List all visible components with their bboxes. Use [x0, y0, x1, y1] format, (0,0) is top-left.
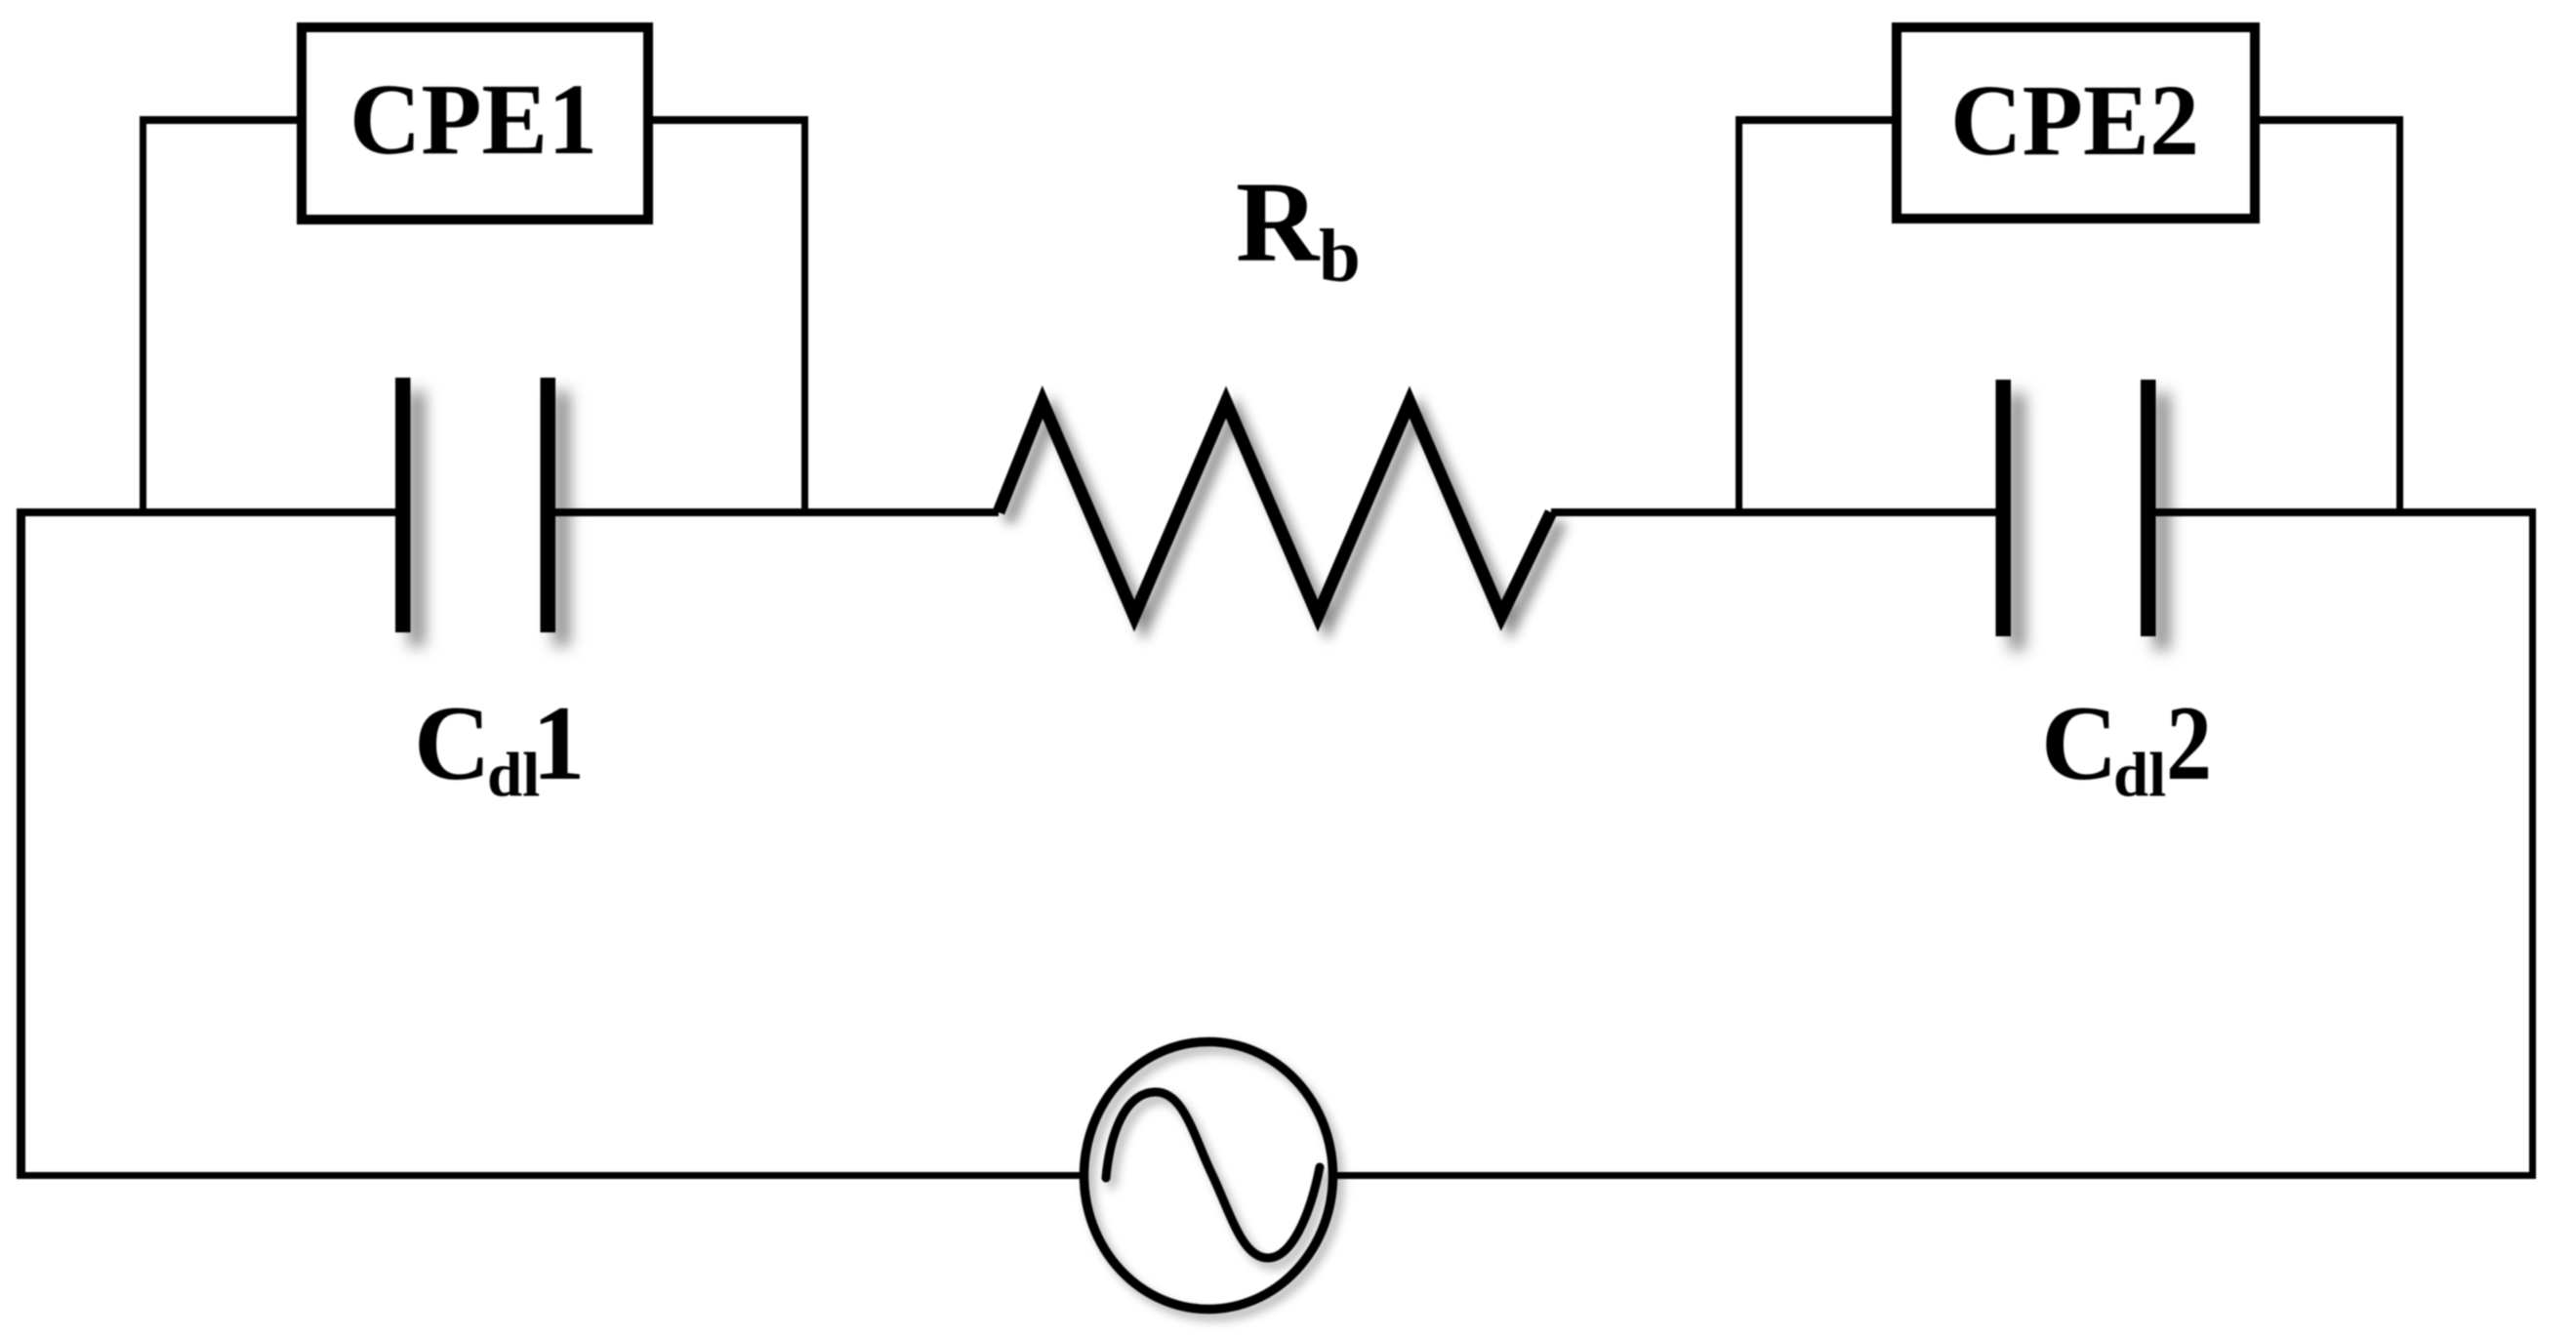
svg-text:b: b — [1319, 214, 1361, 298]
svg-text:1: 1 — [532, 684, 586, 802]
svg-text:R: R — [1236, 158, 1321, 286]
svg-text:CPE2: CPE2 — [1950, 64, 2199, 177]
svg-text:CPE1: CPE1 — [349, 63, 597, 176]
svg-text:C: C — [414, 684, 491, 802]
svg-text:2: 2 — [2166, 684, 2212, 802]
svg-text:dl: dl — [2113, 741, 2166, 811]
svg-text:C: C — [2041, 684, 2118, 802]
